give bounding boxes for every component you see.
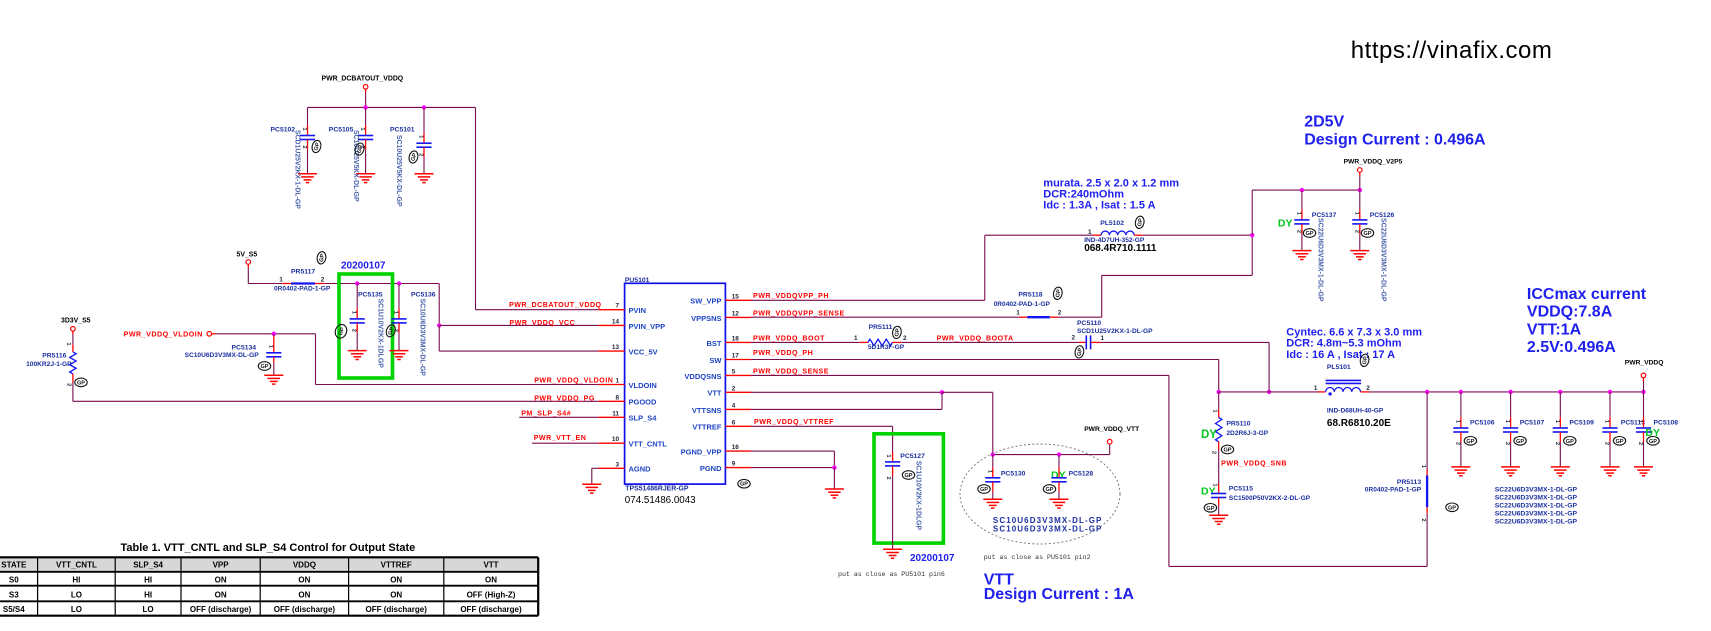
pin 9 PGND: [725, 467, 751, 469]
svg-text:VTT: VTT: [483, 561, 498, 570]
svg-text:PC5107: PC5107: [1520, 419, 1545, 426]
svg-text:LO: LO: [143, 605, 154, 614]
svg-text:PC5128: PC5128: [1069, 471, 1094, 478]
svg-text:SC10U6D3V3MX-DL-GP: SC10U6D3V3MX-DL-GP: [419, 299, 426, 377]
svg-text:PR5118: PR5118: [1018, 291, 1042, 298]
svg-text:2: 2: [1604, 442, 1610, 445]
svg-text:VTT_CNTL: VTT_CNTL: [629, 440, 668, 449]
svg-text:PWR_VDDQVPP_PH: PWR_VDDQVPP_PH: [753, 292, 829, 300]
svg-text:VPP: VPP: [213, 561, 230, 570]
svg-text:5: 5: [732, 368, 736, 375]
svg-text:5V_S5: 5V_S5: [237, 251, 258, 258]
svg-text:20200107: 20200107: [341, 261, 386, 272]
svg-text:PWR_VDDQ_SENSE: PWR_VDDQ_SENSE: [753, 367, 829, 375]
svg-text:OFF (High-Z): OFF (High-Z): [467, 591, 516, 600]
svg-text:VDDQ:7.8A: VDDQ:7.8A: [1527, 304, 1613, 321]
svg-text:GP: GP: [980, 487, 988, 493]
svg-text:20200107: 20200107: [910, 553, 955, 564]
svg-text:PWR_VDDQ_V2P5: PWR_VDDQ_V2P5: [1344, 158, 1403, 165]
svg-text:VTTREF: VTTREF: [381, 561, 412, 570]
ground PC5106: [1451, 467, 1470, 476]
svg-text:LO: LO: [71, 591, 82, 600]
svg-text:PC5108: PC5108: [1654, 419, 1679, 426]
ground PC5134: [264, 375, 283, 384]
svg-text:SLP_S4: SLP_S4: [133, 561, 163, 570]
svg-text:PGOOD: PGOOD: [629, 398, 658, 407]
off-page connector circle: [207, 332, 212, 337]
svg-text:S3: S3: [9, 591, 19, 600]
wire PGND_VPP: [751, 450, 834, 452]
svg-text:1: 1: [854, 335, 858, 342]
svg-text:GP: GP: [1305, 231, 1313, 237]
svg-text:OFF (discharge): OFF (discharge): [274, 605, 336, 614]
svg-text:2: 2: [351, 329, 357, 332]
svg-text:18: 18: [732, 335, 740, 342]
svg-text:SLP_S4: SLP_S4: [629, 414, 658, 423]
ground PC5127: [883, 549, 902, 558]
wire SW_VPP to inductor PL5102: [751, 299, 985, 301]
svg-text:SW_VPP: SW_VPP: [690, 297, 721, 306]
svg-text:GP: GP: [77, 380, 85, 386]
svg-text:PC5102: PC5102: [271, 126, 296, 133]
svg-text:0R0402-PAD-1-GP: 0R0402-PAD-1-GP: [994, 301, 1051, 308]
svg-text:2: 2: [903, 335, 907, 342]
wire PGND: [751, 467, 834, 469]
svg-text:DY: DY: [1201, 429, 1217, 441]
pin 18 BST: [725, 341, 751, 343]
ground PC5102: [311, 139, 323, 153]
svg-text:PC5115: PC5115: [1229, 486, 1253, 493]
svg-text:PC5106: PC5106: [1470, 419, 1495, 426]
svg-text:STATE: STATE: [1, 561, 27, 570]
svg-text:2: 2: [1295, 230, 1301, 233]
svg-text:GP: GP: [1466, 439, 1474, 445]
svg-text:ON: ON: [298, 576, 310, 585]
svg-text:PL5101: PL5101: [1327, 364, 1351, 371]
ground PC5115: [1209, 515, 1228, 524]
svg-text:2: 2: [1071, 335, 1075, 342]
svg-text:PC5127: PC5127: [900, 453, 925, 460]
svg-text:Table 1. VTT_CNTL and SLP_S4 C: Table 1. VTT_CNTL and SLP_S4 Control for…: [121, 542, 416, 554]
green box 20200107 (PC5135): [339, 274, 393, 378]
svg-text:PC5130: PC5130: [1001, 471, 1026, 478]
svg-text:PGND_VPP: PGND_VPP: [681, 448, 722, 457]
pin 3 AGND: [598, 467, 624, 469]
resistor PR5113 0R0402-PAD-1-GP (vertical): [1426, 513, 1428, 566]
svg-text:GP: GP: [1448, 505, 1456, 511]
svg-text:OFF (discharge): OFF (discharge): [190, 605, 252, 614]
svg-text:2.5V:0.496A: 2.5V:0.496A: [1527, 339, 1616, 356]
svg-text:Idc : 1.3A , Isat : 1.5 A: Idc : 1.3A , Isat : 1.5 A: [1043, 199, 1155, 211]
svg-text:100KR2J-1-GP: 100KR2J-1-GP: [26, 361, 72, 368]
svg-text:VTT:1A: VTT:1A: [1527, 321, 1582, 338]
svg-text:11: 11: [612, 410, 619, 417]
svg-text:2: 2: [66, 383, 72, 386]
svg-text:IND-D68UH-40-GP: IND-D68UH-40-GP: [1327, 407, 1384, 414]
svg-text:SC1500P50V2KX-2-DL-GP: SC1500P50V2KX-2-DL-GP: [1229, 495, 1311, 502]
svg-text:SCD1U25V2KX-1-DL-GP: SCD1U25V2KX-1-DL-GP: [294, 130, 301, 209]
table VTT_CNTL / SLP_S4 states: [0, 557, 538, 615]
svg-text:2: 2: [1366, 385, 1370, 392]
svg-text:DCR: 4.8m~5.3 mOhm: DCR: 4.8m~5.3 mOhm: [1286, 337, 1401, 349]
svg-text:Idc : 16 A , Isat : 17 A: Idc : 16 A , Isat : 17 A: [1286, 349, 1395, 361]
svg-text:SC22U6D3V3MX-1-DL-GP: SC22U6D3V3MX-1-DL-GP: [1380, 218, 1387, 302]
svg-text:VTTSNS: VTTSNS: [692, 406, 722, 415]
wire VDDQ output rail: [1369, 391, 1643, 393]
wire PGOOD net: [72, 383, 74, 402]
svg-text:SC22U6D3V3MX-1-DL-GP: SC22U6D3V3MX-1-DL-GP: [1495, 503, 1578, 510]
svg-text:SC22U6D3V3MX-1-DL-GP: SC22U6D3V3MX-1-DL-GP: [1317, 218, 1324, 302]
svg-text:DY: DY: [1645, 427, 1660, 439]
svg-text:1: 1: [1016, 310, 1020, 317]
ground PC5113: [1601, 467, 1620, 476]
svg-text:3D3V_S5: 3D3V_S5: [61, 317, 91, 324]
svg-text:murata. 2.5 x 2.0 x 1.2 mm: murata. 2.5 x 2.0 x 1.2 mm: [1043, 177, 1179, 189]
svg-text:HI: HI: [144, 591, 152, 600]
svg-text:Design Current : 1A: Design Current : 1A: [984, 586, 1135, 603]
svg-text:16: 16: [732, 444, 740, 451]
ground PC5109: [1551, 467, 1570, 476]
pin 6 VTTREF: [725, 425, 751, 427]
svg-text:HI: HI: [72, 576, 80, 585]
svg-text:15: 15: [732, 293, 740, 300]
svg-text:7: 7: [615, 303, 619, 310]
svg-text:SC22U6D3V3MX-1-DL-GP: SC22U6D3V3MX-1-DL-GP: [1495, 487, 1578, 494]
node bus junction at PC5105: [363, 105, 367, 109]
svg-text:put as close as PU5101 pin2: put as close as PU5101 pin2: [984, 554, 1091, 561]
svg-text:SC22U6D3V3MX-1-DL-GP: SC22U6D3V3MX-1-DL-GP: [1495, 518, 1578, 525]
svg-text:2: 2: [732, 385, 736, 392]
svg-text:PWR_VDDQ_PH: PWR_VDDQ_PH: [753, 349, 813, 357]
svg-text:2: 2: [1211, 451, 1217, 454]
pin 17 SW: [725, 359, 751, 361]
svg-text:2: 2: [321, 276, 325, 283]
svg-text:8: 8: [615, 394, 619, 401]
svg-text:OFF (discharge): OFF (discharge): [460, 605, 522, 614]
wire VLDOIN: [216, 333, 316, 335]
pin 10 VTT_CNTL: [598, 442, 624, 444]
svg-text:PWR_VDDQ: PWR_VDDQ: [1625, 360, 1664, 367]
svg-text:13: 13: [612, 344, 620, 351]
svg-text:PC5135: PC5135: [358, 292, 383, 299]
svg-text:ON: ON: [390, 591, 402, 600]
svg-text:2: 2: [1353, 230, 1359, 233]
svg-text:2: 2: [1554, 442, 1560, 445]
GP stamp near PGND: [738, 479, 750, 488]
svg-text:ON: ON: [215, 576, 227, 585]
svg-text:SC1U10V2KX-1DLGP: SC1U10V2KX-1DLGP: [377, 299, 384, 369]
wire PC5110 to SW node: [1101, 341, 1269, 343]
svg-text:1: 1: [1101, 335, 1105, 342]
svg-text:1: 1: [279, 277, 283, 284]
svg-text:PWR_VDDQ_VCC: PWR_VDDQ_VCC: [509, 319, 575, 327]
svg-text:9: 9: [732, 461, 736, 468]
pin 5 VDDQSNS: [725, 374, 751, 376]
wire VTT net: [751, 391, 942, 393]
svg-text:2: 2: [1420, 518, 1426, 521]
svg-text:LO: LO: [71, 605, 82, 614]
svg-text:GP: GP: [1206, 506, 1214, 512]
wire to PVIN_VPP pin 14: [438, 284, 440, 326]
svg-text:TPS51486RJER-GP: TPS51486RJER-GP: [625, 486, 689, 493]
svg-text:PC5105: PC5105: [329, 126, 354, 133]
svg-text:ON: ON: [215, 591, 227, 600]
pin 14 PVIN_VPP: [598, 324, 624, 326]
svg-text:SW: SW: [709, 356, 722, 365]
svg-text:PU5101: PU5101: [625, 277, 650, 284]
svg-text:PR5111: PR5111: [869, 324, 893, 331]
capacitor PC5136: [397, 281, 401, 285]
svg-text:PGND: PGND: [700, 464, 722, 473]
svg-text:1: 1: [1314, 385, 1318, 392]
svg-text:GP: GP: [1223, 448, 1231, 454]
capacitor PC5135: [355, 281, 359, 285]
svg-text:PWR_VDDQ_VLDOIN: PWR_VDDQ_VLDOIN: [124, 330, 203, 338]
svg-text:PWR_VDDQ_VTTREF: PWR_VDDQ_VTTREF: [754, 418, 834, 426]
svg-text:6: 6: [732, 419, 736, 426]
svg-text:ICCmax current: ICCmax current: [1527, 286, 1647, 303]
svg-text:SC22U6D3V3MX-1-DL-GP: SC22U6D3V3MX-1-DL-GP: [1495, 495, 1578, 502]
svg-text:HI: HI: [144, 576, 152, 585]
green box 20200107 (PC5127): [874, 434, 943, 543]
svg-text:VLDOIN: VLDOIN: [629, 381, 657, 390]
pin 11 SLP_S4: [598, 416, 624, 418]
svg-text:SCD1U25V2KX-1-DL-GP: SCD1U25V2KX-1-DL-GP: [1077, 328, 1153, 335]
svg-text:VCC_5V: VCC_5V: [629, 348, 658, 357]
svg-text:1: 1: [1088, 229, 1092, 236]
GP stamp near PR5113: [1446, 503, 1458, 512]
svg-text:5D1R3F-GP: 5D1R3F-GP: [868, 344, 905, 351]
wire inductor to V2P5 rail: [1143, 234, 1252, 236]
pin 8 PGOOD: [598, 400, 624, 402]
pin 1 VLDOIN: [598, 384, 624, 386]
ground PC5108: [1634, 467, 1653, 476]
svg-text:VTT: VTT: [707, 389, 722, 398]
svg-text:Design Current : 0.496A: Design Current : 0.496A: [1304, 131, 1486, 148]
svg-text:VTT_CNTL: VTT_CNTL: [56, 561, 97, 570]
svg-text:GP: GP: [1363, 231, 1371, 237]
svg-text:SC22U6D3V3MX-1-DL-GP: SC22U6D3V3MX-1-DL-GP: [1495, 511, 1578, 518]
svg-text:PC5101: PC5101: [390, 127, 415, 134]
svg-text:1: 1: [615, 378, 619, 385]
svg-text:PWR_VDDQ_BOOTA: PWR_VDDQ_BOOTA: [937, 335, 1014, 343]
wire top input bus: [308, 106, 476, 108]
svg-text:SC1U10V2KX-1DLGP: SC1U10V2KX-1DLGP: [915, 461, 922, 531]
svg-text:2D2R6J-3-GP: 2D2R6J-3-GP: [1226, 430, 1268, 437]
svg-text:GP: GP: [1649, 439, 1657, 445]
svg-text:2: 2: [301, 145, 307, 148]
svg-text:10: 10: [612, 436, 620, 443]
svg-text:ON: ON: [298, 591, 310, 600]
svg-text:PWR_VDDQ_VLDOIN: PWR_VDDQ_VLDOIN: [534, 376, 613, 384]
svg-text:VDDQSNS: VDDQSNS: [684, 372, 721, 381]
wire BST to PR5111: [751, 341, 860, 343]
op-amp/regulator U1 PU5101 TPS51486RJER: [625, 283, 726, 484]
svg-text:2: 2: [1058, 310, 1062, 317]
wire to VCC_5V pin 13: [438, 325, 440, 351]
svg-text:VPPSNS: VPPSNS: [691, 314, 721, 323]
svg-text:2: 2: [1454, 442, 1460, 445]
svg-text:2: 2: [1637, 442, 1643, 445]
ground PC5130: [983, 499, 1002, 508]
dashed ellipse VTT caps: [960, 444, 1120, 544]
ground PGND: [825, 489, 844, 498]
wire VLDOIN to pin 1: [315, 334, 317, 385]
svg-text:PC5134: PC5134: [232, 344, 257, 351]
wire VPP sense to output rail: [1058, 316, 1101, 318]
svg-text:SC10U25V5KX-DL-GP: SC10U25V5KX-DL-GP: [395, 135, 402, 207]
svg-text:PR5117: PR5117: [291, 269, 315, 276]
svg-text:DY: DY: [1051, 470, 1066, 482]
svg-text:PWR_VDDQ_SNB: PWR_VDDQ_SNB: [1221, 460, 1287, 468]
svg-text:PL5102: PL5102: [1100, 220, 1124, 227]
svg-text:SC10U6D3V3MX-DL-GP: SC10U6D3V3MX-DL-GP: [993, 524, 1103, 533]
wire VTTREF: [751, 425, 893, 427]
svg-text:PC5136: PC5136: [411, 292, 436, 299]
svg-text:AGND: AGND: [629, 465, 652, 474]
svg-text:PWR_VDDQ_BOOT: PWR_VDDQ_BOOT: [753, 334, 825, 342]
svg-text:068.4R710.1111: 068.4R710.1111: [1084, 243, 1157, 254]
svg-text:68.R6810.20E: 68.R6810.20E: [1327, 418, 1391, 429]
wire VTT cap rail: [993, 454, 1110, 456]
svg-text:S5/S4: S5/S4: [3, 605, 25, 614]
svg-text:https://vinafix.com: https://vinafix.com: [1351, 37, 1553, 64]
wire VTTSNS: [751, 408, 942, 410]
wire 5V rail into decoupling box: [325, 283, 440, 285]
svg-text:VTTREF: VTTREF: [692, 423, 722, 432]
svg-text:SC10U6D3V3MX-DL-GP: SC10U6D3V3MX-DL-GP: [185, 352, 260, 359]
svg-text:VDDQ: VDDQ: [293, 561, 316, 570]
svg-text:DY: DY: [1278, 217, 1293, 229]
svg-text:GP: GP: [740, 482, 748, 488]
svg-text:PWR_VDDQ_PG: PWR_VDDQ_PG: [534, 395, 595, 403]
svg-text:OFF (discharge): OFF (discharge): [366, 605, 428, 614]
wire VPPSNS to PR5118: [751, 316, 1019, 318]
svg-text:3: 3: [615, 461, 619, 468]
pin 7 PVIN: [598, 309, 624, 311]
svg-text:PVIN_VPP: PVIN_VPP: [629, 322, 666, 331]
svg-text:0R0402-PAD-1-GP: 0R0402-PAD-1-GP: [1365, 487, 1422, 494]
pin 12 VPPSNS: [725, 316, 751, 318]
svg-text:PWR_VTT_EN: PWR_VTT_EN: [534, 434, 587, 442]
svg-text:GP: GP: [1516, 439, 1524, 445]
ground PC5107: [1501, 467, 1520, 476]
svg-text:PR5116: PR5116: [42, 353, 66, 360]
svg-text:PR5110: PR5110: [1226, 421, 1250, 428]
svg-text:2: 2: [885, 476, 891, 479]
ground AGND: [592, 467, 599, 469]
svg-text:PM_SLP_S4#: PM_SLP_S4#: [521, 410, 571, 418]
svg-text:GP: GP: [1615, 439, 1623, 445]
pin 13 VCC_5V: [598, 350, 624, 352]
svg-text:PWR_DCBATOUT_VDDQ: PWR_DCBATOUT_VDDQ: [322, 76, 404, 83]
ground PC5128: [1050, 499, 1069, 508]
svg-text:DY: DY: [1201, 486, 1216, 498]
pin 4 VTTSNS: [725, 408, 751, 410]
svg-text:GP: GP: [904, 473, 912, 479]
svg-text:12: 12: [732, 310, 740, 317]
svg-text:PVIN: PVIN: [629, 306, 647, 315]
svg-text:put as close as PU5101 pin6: put as close as PU5101 pin6: [838, 571, 945, 578]
svg-text:PWR_VDDQ_VTT: PWR_VDDQ_VTT: [1084, 426, 1140, 433]
svg-text:PWR_DCBATOUT_VDDQ: PWR_DCBATOUT_VDDQ: [509, 301, 602, 309]
svg-text:4: 4: [732, 402, 736, 409]
svg-text:SC10U25V5KX-DL-GP: SC10U25V5KX-DL-GP: [352, 130, 359, 202]
svg-text:2D5V: 2D5V: [1304, 114, 1344, 131]
node bus junction at PC5101: [422, 105, 426, 109]
wire bus to PVIN pin 7: [475, 107, 477, 309]
svg-text:ON: ON: [390, 576, 402, 585]
wire BOOTA to PC5110: [901, 341, 1079, 343]
svg-text:ON: ON: [485, 576, 497, 585]
svg-text:17: 17: [732, 353, 740, 360]
svg-text:PR5113: PR5113: [1397, 479, 1421, 486]
wire VDDQSNS: [751, 374, 1169, 376]
wire SW rail to PL5101: [1219, 391, 1318, 393]
svg-text:PWR_VDDQVPP_SENSE: PWR_VDDQVPP_SENSE: [753, 309, 845, 317]
svg-text:PC5109: PC5109: [1569, 419, 1594, 426]
svg-text:14: 14: [612, 318, 620, 325]
svg-text:GP: GP: [260, 364, 268, 370]
svg-text:PC5110: PC5110: [1077, 320, 1101, 327]
svg-text:S0: S0: [9, 576, 19, 585]
svg-text:2: 2: [1504, 442, 1510, 445]
pin 16 PGND_VPP: [725, 450, 751, 452]
svg-text:0R0402-PAD-1-GP: 0R0402-PAD-1-GP: [274, 286, 331, 293]
svg-text:GP: GP: [1045, 487, 1053, 493]
pin 2 VTT: [725, 391, 751, 393]
wire SW to rail: [751, 359, 1219, 361]
svg-text:074.51486.0043: 074.51486.0043: [625, 495, 696, 506]
svg-text:GP: GP: [1566, 439, 1574, 445]
svg-text:BST: BST: [707, 339, 722, 348]
pin 15 SW_VPP: [725, 299, 751, 301]
